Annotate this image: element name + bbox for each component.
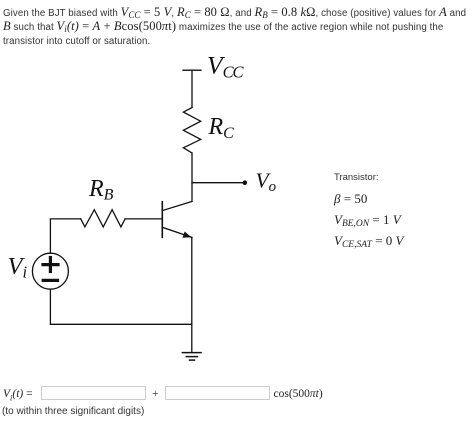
resistor RB bbox=[81, 210, 125, 227]
svg-text:RB: RB bbox=[88, 176, 114, 203]
svg-text:Vo: Vo bbox=[256, 169, 277, 195]
node Vo dot bbox=[243, 180, 248, 185]
input box B bbox=[165, 386, 270, 400]
wire base to RB bbox=[125, 218, 162, 220]
label RC bbox=[208, 114, 235, 142]
note VBE,ON = 1 V bbox=[334, 212, 401, 228]
note VCE,SAT = 0 V bbox=[334, 233, 404, 249]
power supply VCC bar bbox=[183, 69, 201, 71]
label VCC bbox=[207, 51, 244, 82]
transistor Q1 bbox=[162, 201, 192, 237]
wire node to Vo bbox=[192, 182, 245, 184]
svg-text:Vi: Vi bbox=[8, 253, 28, 281]
ground bbox=[182, 353, 201, 361]
wire emitter to ground bbox=[191, 237, 193, 352]
note beta = 50 bbox=[334, 191, 367, 207]
wire RB to Vi source bbox=[50, 219, 80, 253]
svg-text:VCC: VCC bbox=[207, 51, 244, 82]
label RB bbox=[88, 176, 114, 203]
wire Vi to ground rail bbox=[50, 289, 191, 324]
input box A bbox=[41, 386, 146, 400]
label Vi bbox=[8, 253, 28, 281]
resistor RC bbox=[183, 108, 200, 154]
svg-text:RC: RC bbox=[208, 114, 235, 142]
label Vo bbox=[256, 169, 277, 195]
wire VCC to RC bbox=[191, 70, 193, 107]
wire RC to collector node bbox=[191, 153, 193, 201]
source Vi bbox=[32, 253, 68, 289]
